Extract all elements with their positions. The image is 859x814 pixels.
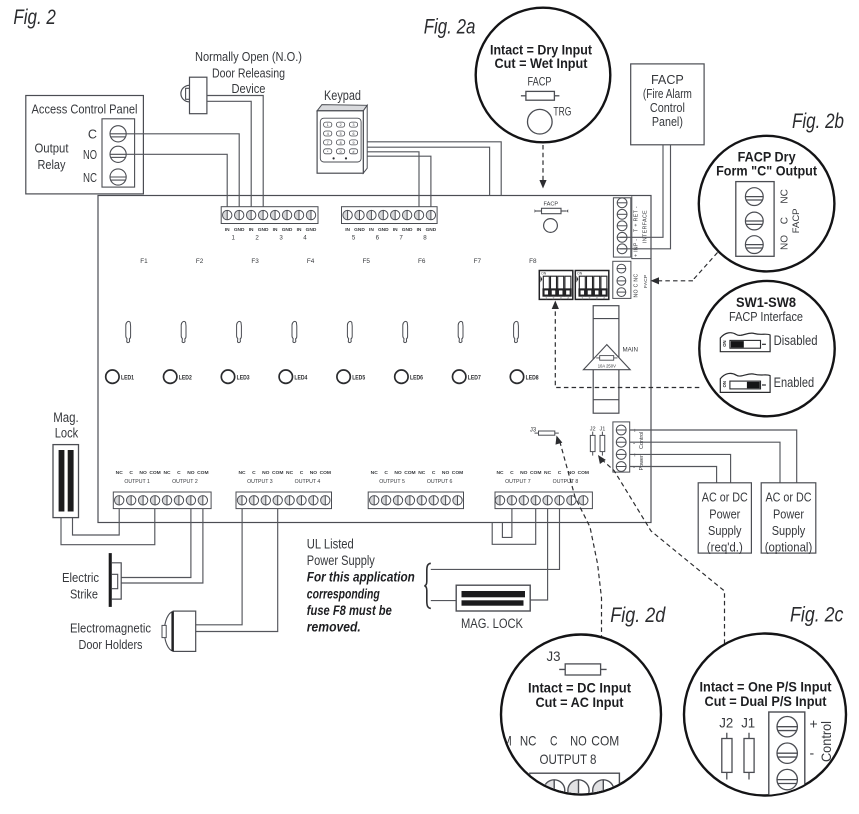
svg-text:MAIN: MAIN: [623, 346, 638, 353]
terminal labels C NO NC: [83, 127, 97, 185]
wire relay C to GND1: [127, 134, 240, 207]
relay output terminal block: [102, 119, 135, 187]
svg-text:LED1: LED1: [121, 375, 135, 381]
svg-text:GND: GND: [426, 227, 437, 233]
dashed arrow J3 to Fig2d: [560, 442, 602, 638]
svg-text:NO: NO: [442, 470, 450, 476]
note UL Listed Power Supply: [307, 537, 375, 568]
labels for OUTPUT 5/6: [371, 470, 464, 485]
svg-text:NC: NC: [371, 470, 379, 476]
svg-text:-: -: [810, 745, 815, 761]
svg-text:2: 2: [589, 296, 591, 300]
svg-text:C: C: [88, 127, 97, 141]
jumper J3: [530, 428, 559, 436]
svg-text:NO: NO: [520, 470, 528, 476]
svg-text:ON: ON: [722, 340, 727, 346]
svg-text:Enabled: Enabled: [774, 375, 815, 390]
Fig2b terminal block: [736, 182, 774, 257]
svg-text:Control: Control: [818, 721, 834, 762]
svg-text:COM: COM: [320, 470, 331, 476]
svg-text:SW1-SW8: SW1-SW8: [736, 295, 796, 310]
svg-text:Output: Output: [35, 140, 69, 155]
svg-text:2: 2: [340, 123, 342, 127]
svg-text:C: C: [780, 217, 791, 224]
DIP switch block SW5-SW8: [575, 271, 609, 301]
svg-text:C: C: [510, 470, 514, 476]
svg-text:F3: F3: [251, 258, 259, 265]
svg-text:Cut = AC Input: Cut = AC Input: [536, 695, 624, 711]
output terminal strip OUTPUT 5/6: [368, 492, 463, 509]
keypad wire 2 to board edge: [367, 147, 489, 195]
svg-text:OUTPUT 8: OUTPUT 8: [553, 479, 579, 485]
AC or DC Power Supply (required) box: [698, 483, 751, 553]
svg-text:Power Supply: Power Supply: [307, 553, 375, 568]
svg-text:ON: ON: [577, 272, 583, 276]
note For this application corresponding fuse F8 must be removed: [307, 570, 415, 635]
svg-text:NO: NO: [139, 470, 147, 476]
labels for OUTPUT 3/4: [238, 470, 331, 485]
svg-text:5: 5: [340, 132, 342, 136]
svg-text:OUTPUT 4: OUTPUT 4: [295, 479, 321, 485]
brace joining note to wires: [424, 563, 430, 608]
svg-text:Power: Power: [639, 455, 645, 470]
svg-text:Supply: Supply: [708, 523, 742, 538]
Fig2d labels M NC C NO COM: [502, 733, 619, 749]
svg-text:IN: IN: [249, 227, 254, 233]
wire mag lock left to COM1: [61, 509, 155, 545]
svg-text:NO: NO: [780, 235, 791, 250]
svg-text:1: 1: [231, 235, 235, 242]
svg-text:COM: COM: [530, 470, 541, 476]
svg-text:LED3: LED3: [237, 375, 251, 381]
labels for OUTPUT 1/2: [116, 470, 209, 485]
svg-text:3: 3: [596, 296, 598, 300]
Access Control Panel box: [26, 96, 144, 194]
svg-text:Access Control Panel: Access Control Panel: [32, 102, 138, 117]
svg-text:F7: F7: [474, 258, 482, 265]
svg-text:4: 4: [567, 296, 569, 300]
Power/Control terminal block: [613, 422, 630, 472]
svg-text:FACP: FACP: [528, 75, 552, 89]
svg-text:10A 250V: 10A 250V: [598, 363, 616, 368]
output terminal strip OUTPUT 7/8: [495, 492, 592, 509]
labels IN GND 1-4: [225, 227, 317, 242]
svg-text:Supply: Supply: [772, 523, 806, 538]
svg-text:7: 7: [327, 141, 329, 145]
svg-text:FACP: FACP: [643, 275, 649, 288]
label Normally Open (N.O.) Door Releasing Device: [195, 49, 302, 96]
svg-text:fuse F8 must be: fuse F8 must be: [307, 603, 392, 618]
svg-text:GND: GND: [306, 227, 317, 233]
svg-text:LED4: LED4: [294, 375, 308, 381]
svg-text:NC: NC: [238, 470, 246, 476]
svg-text:NC: NC: [780, 189, 791, 203]
svg-text:NC: NC: [163, 470, 171, 476]
svg-text:INTERFACE: INTERFACE: [643, 210, 649, 243]
svg-text:F2: F2: [196, 258, 204, 265]
svg-text:C: C: [129, 470, 133, 476]
wire electric strike to COM2: [121, 509, 203, 583]
callout circle Fig 2d: [501, 635, 661, 795]
svg-text:COM: COM: [404, 470, 415, 476]
interface label column box: [632, 196, 651, 258]
svg-text:F5: F5: [362, 258, 370, 265]
DIP switch block SW1-SW4: [539, 271, 573, 301]
svg-text:FACP: FACP: [791, 208, 802, 233]
svg-text:Control: Control: [639, 432, 645, 449]
svg-text:COM: COM: [149, 470, 160, 476]
svg-text:Fig. 2: Fig. 2: [13, 6, 56, 29]
svg-text:NO C NC: NO C NC: [634, 273, 640, 297]
magnetic lock device: [53, 445, 79, 518]
keypad device: [317, 105, 367, 174]
svg-text:NC: NC: [116, 470, 124, 476]
svg-text:C: C: [384, 470, 388, 476]
svg-text:T + RET -: T + RET -: [634, 206, 640, 232]
svg-text:F1: F1: [140, 258, 148, 265]
svg-text:Power: Power: [773, 507, 805, 522]
keypad wire 1 to board edge: [367, 142, 501, 196]
svg-text:Panel): Panel): [652, 115, 683, 129]
svg-text:8: 8: [340, 141, 342, 145]
Fig2a FACP fuse: [521, 95, 526, 97]
svg-text:FACP Dry: FACP Dry: [738, 150, 796, 165]
Fig2d text Intact = DC Input / Cut = AC Input: [528, 680, 631, 710]
svg-text:1: 1: [327, 123, 329, 127]
svg-text:GND: GND: [402, 227, 413, 233]
svg-text:GND: GND: [258, 227, 269, 233]
svg-text:GND: GND: [354, 227, 365, 233]
svg-text:8: 8: [423, 235, 427, 242]
svg-text:Fig. 2a: Fig. 2a: [424, 16, 476, 39]
wire Control + to optional supply: [630, 430, 797, 483]
wire door holder to COM3: [196, 509, 278, 632]
svg-text:Cut = Wet Input: Cut = Wet Input: [495, 56, 588, 71]
svg-text:FACP: FACP: [543, 202, 558, 208]
SW switch Enabled: [720, 373, 770, 392]
svg-text:C: C: [177, 470, 181, 476]
wire C8 to power supply brace: [431, 509, 560, 570]
svg-text:6: 6: [353, 132, 355, 136]
Fig2c jumper J1: [744, 733, 754, 780]
LED1-LED8 indicators: [106, 370, 539, 383]
svg-text:NC: NC: [83, 171, 97, 185]
svg-text:C: C: [550, 733, 558, 749]
wire mag lock right to NC1: [73, 509, 120, 535]
callout circle SW1-SW8: [699, 281, 834, 416]
dashed arrow Fig2b to FACP block: [659, 253, 718, 281]
svg-text:LED7: LED7: [468, 375, 482, 381]
svg-text:C: C: [252, 470, 256, 476]
svg-text:5: 5: [352, 235, 356, 242]
svg-text:J1: J1: [741, 715, 755, 731]
keypad wire 4 to GND8: [367, 156, 431, 207]
svg-text:F8: F8: [529, 258, 537, 265]
svg-text:GND: GND: [378, 227, 389, 233]
svg-text:3: 3: [353, 123, 355, 127]
SW switch Disabled: [720, 333, 770, 352]
FACP panel wire to interface T: [620, 145, 663, 238]
svg-text:Fig. 2d: Fig. 2d: [610, 604, 666, 627]
svg-text:F6: F6: [418, 258, 426, 265]
svg-text:NO: NO: [310, 470, 318, 476]
svg-text:NO: NO: [394, 470, 402, 476]
fuse labels F1-F8: [140, 258, 537, 265]
svg-text:Disabled: Disabled: [774, 333, 818, 348]
svg-text:LED8: LED8: [526, 375, 540, 381]
dashed arrow SW circle to DIP switches: [555, 308, 699, 388]
svg-text:NO: NO: [262, 470, 270, 476]
svg-text:Mag.: Mag.: [53, 410, 79, 425]
svg-text:C: C: [432, 470, 436, 476]
electric strike device: [109, 553, 122, 607]
wire Control - to optional supply: [630, 442, 780, 483]
svg-text:+: +: [810, 716, 818, 732]
svg-text:0: 0: [340, 150, 342, 154]
relay/MOV components row: [126, 321, 519, 342]
svg-text:(Fire Alarm: (Fire Alarm: [643, 87, 692, 101]
svg-text:MAG. LOCK: MAG. LOCK: [461, 616, 523, 631]
svg-text:AC or DC: AC or DC: [766, 490, 812, 505]
dashed arrow Fig2a to board FACP: [542, 145, 544, 180]
svg-text:Keypad: Keypad: [324, 88, 361, 103]
Fig2b text FACP Dry Form C Output: [716, 150, 817, 179]
wire relay NO to IN1: [127, 154, 228, 206]
svg-text:NO: NO: [187, 470, 195, 476]
svg-text:3: 3: [279, 235, 283, 242]
svg-text:-: -: [633, 440, 635, 447]
svg-text:NC: NC: [544, 470, 552, 476]
svg-text:Door Releasing: Door Releasing: [212, 66, 285, 81]
svg-text:LED2: LED2: [179, 375, 193, 381]
svg-text:IN: IN: [273, 227, 278, 233]
labels + - Power: [633, 452, 645, 471]
svg-text:OUTPUT 7: OUTPUT 7: [505, 479, 531, 485]
label Output Relay: [35, 140, 69, 172]
svg-text:J2: J2: [590, 426, 596, 432]
FACP panel wire to interface INP: [620, 145, 671, 249]
callout circle Fig 2c: [684, 634, 846, 796]
svg-text:ON: ON: [541, 272, 547, 276]
door releasing device (pushbutton): [181, 77, 207, 114]
svg-text:Cut = Dual P/S Input: Cut = Dual P/S Input: [705, 694, 827, 710]
svg-text:OUTPUT 2: OUTPUT 2: [172, 479, 198, 485]
wire door device to IN2: [207, 101, 251, 206]
svg-text:OUTPUT 6: OUTPUT 6: [427, 479, 453, 485]
svg-text:J1: J1: [599, 426, 605, 432]
svg-text:NO: NO: [83, 148, 97, 162]
Fig2c jumper J2: [722, 733, 732, 780]
svg-text:IN: IN: [225, 227, 230, 233]
wire loop C7 to board edge: [502, 509, 512, 538]
svg-text:COM: COM: [578, 470, 589, 476]
keypad wire 3 to IN8: [367, 152, 419, 207]
wire door holder to NC3: [196, 509, 242, 625]
svg-text:C: C: [300, 470, 304, 476]
svg-text:Control: Control: [650, 101, 685, 115]
SW callout title: [729, 295, 803, 324]
label Electromagnetic Door Holders: [70, 620, 151, 652]
svg-text:(optional): (optional): [765, 540, 813, 555]
wire electric strike to NO2: [121, 509, 191, 578]
svg-text:IN: IN: [417, 227, 422, 233]
AC or DC Power Supply (optional) box: [761, 483, 816, 553]
svg-text:1: 1: [545, 296, 547, 300]
wire NC8 to mag lock (bottom): [530, 509, 547, 600]
svg-text:GND: GND: [282, 227, 293, 233]
Fig2d J3 fuse: [559, 668, 565, 670]
svg-text:NO: NO: [570, 733, 587, 749]
svg-text:OUTPUT 5: OUTPUT 5: [379, 479, 405, 485]
svg-text:+ INP -: + INP -: [634, 239, 640, 257]
svg-text:IN: IN: [393, 227, 398, 233]
svg-text:corresponding: corresponding: [307, 586, 380, 601]
svg-text:IN: IN: [369, 227, 374, 233]
FACP terminal block on board: [613, 261, 631, 298]
svg-text:GND: GND: [234, 227, 245, 233]
svg-text:Lock: Lock: [55, 426, 79, 441]
svg-text:+: +: [633, 452, 637, 459]
svg-text:J2: J2: [719, 715, 733, 731]
Fig2b labels NO C NC: [780, 189, 791, 250]
svg-text:IN: IN: [345, 227, 350, 233]
Fig2c control terminal block: [769, 712, 805, 804]
MAIN fuse holder: [583, 306, 638, 414]
svg-text:Fig. 2b: Fig. 2b: [792, 110, 844, 133]
svg-text:#: #: [353, 150, 355, 154]
svg-text:4: 4: [303, 235, 307, 242]
wire Power - to required supply: [630, 467, 717, 483]
svg-text:Electric: Electric: [62, 570, 99, 585]
svg-text:F4: F4: [307, 258, 315, 265]
Fig2a TRG circle: [528, 109, 553, 134]
svg-text:4: 4: [327, 132, 329, 136]
svg-text:IN: IN: [297, 227, 302, 233]
svg-text:OUTPUT 8: OUTPUT 8: [540, 751, 597, 767]
svg-text:NC: NC: [520, 733, 537, 749]
on-board FACP fuse and trigger: [535, 202, 569, 233]
svg-text:ON: ON: [722, 381, 727, 387]
svg-text:9: 9: [353, 141, 355, 145]
output terminal strip OUTPUT 1/2: [113, 492, 211, 509]
Fig2c text Intact = One P/S Input / Cut = Dual P/S Input: [700, 680, 832, 711]
svg-text:NC: NC: [496, 470, 504, 476]
jumpers J2 J1: [590, 426, 606, 455]
svg-text:NC: NC: [418, 470, 426, 476]
labels IN GND 5-8: [345, 227, 437, 242]
input terminal strip IN/GND 1-4: [221, 207, 318, 224]
callout circle Fig 2b: [699, 136, 835, 272]
labels for OUTPUT 7/8: [496, 470, 589, 485]
svg-text:(req'd.): (req'd.): [707, 540, 743, 555]
label Mag. Lock: [53, 410, 79, 441]
wire Power + to required supply: [630, 454, 731, 482]
svg-text:FACP Interface: FACP Interface: [729, 309, 803, 324]
INTERFACE terminal block: [613, 198, 630, 257]
FACP Fire Alarm Control Panel box: [631, 64, 704, 145]
input terminal strip IN/GND 5-8: [342, 207, 438, 224]
svg-text:OUTPUT 3: OUTPUT 3: [247, 479, 273, 485]
svg-text:COM: COM: [197, 470, 208, 476]
svg-text:UL Listed: UL Listed: [307, 537, 354, 552]
svg-text:Form "C" Output: Form "C" Output: [716, 164, 817, 179]
svg-text:1: 1: [581, 296, 583, 300]
svg-text:2: 2: [553, 296, 555, 300]
dashed arrow J2 J1 to Fig2c: [602, 459, 725, 645]
Fig2d terminal strip: [530, 773, 620, 814]
electromagnetic door holder device: [162, 611, 196, 651]
svg-text:+: +: [633, 428, 637, 435]
svg-text:COM: COM: [452, 470, 463, 476]
svg-text:AC or DC: AC or DC: [702, 490, 748, 505]
svg-text:Fig. 2c: Fig. 2c: [790, 604, 844, 627]
label Electric Strike: [62, 570, 99, 602]
svg-text:For this application: For this application: [307, 570, 415, 585]
svg-text:removed.: removed.: [307, 620, 361, 635]
text AC or DC Power Supply (optional): [765, 490, 813, 555]
wire door device to GND2: [207, 96, 263, 207]
svg-text:6: 6: [376, 235, 380, 242]
svg-text:COM: COM: [272, 470, 283, 476]
Fig2a text Intact = Dry Input / Cut = Wet Input: [490, 43, 592, 72]
svg-text:LED6: LED6: [410, 375, 424, 381]
callout circle Fig 2a: [476, 8, 611, 143]
svg-text:TRG: TRG: [553, 105, 571, 119]
svg-text:OUTPUT 1: OUTPUT 1: [124, 479, 150, 485]
svg-text:J3: J3: [547, 648, 561, 664]
FACP box text: [643, 73, 692, 129]
labels + - Control: [633, 428, 645, 449]
main controller board outline: [98, 196, 651, 523]
svg-text:NC: NC: [286, 470, 294, 476]
svg-text:2: 2: [255, 235, 259, 242]
svg-text:COM: COM: [591, 733, 619, 749]
svg-text:Door Holders: Door Holders: [79, 637, 143, 652]
svg-text:Normally Open (N.O.): Normally Open (N.O.): [195, 49, 302, 64]
Fig2c labels + - +: [810, 716, 818, 790]
svg-text:Electromagnetic: Electromagnetic: [70, 620, 151, 635]
output terminal strip OUTPUT 3/4: [236, 492, 332, 509]
svg-text:Device: Device: [232, 81, 266, 96]
svg-text:3: 3: [560, 296, 562, 300]
svg-text:Strike: Strike: [70, 586, 98, 601]
svg-text:C: C: [558, 470, 562, 476]
text AC or DC Power Supply (req'd.): [702, 490, 748, 555]
svg-text:Relay: Relay: [38, 157, 66, 172]
Fig2c labels J2 J1: [719, 715, 755, 731]
svg-text:-: -: [633, 464, 635, 471]
wire brace to mag lock (bottom): [431, 600, 456, 602]
svg-text:FACP: FACP: [651, 73, 684, 87]
magnetic lock (bottom): [456, 585, 530, 611]
svg-text:4: 4: [603, 296, 605, 300]
svg-text:Power: Power: [709, 507, 741, 522]
svg-text:7: 7: [399, 235, 403, 242]
svg-text:LED5: LED5: [352, 375, 366, 381]
wire loop COM7 to board edge: [492, 509, 536, 545]
